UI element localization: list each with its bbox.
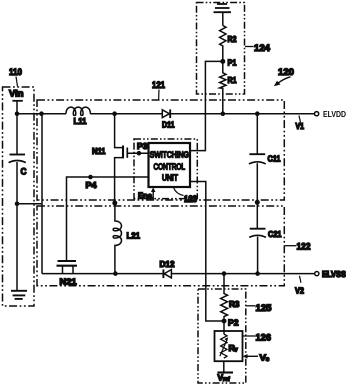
svg-text:R1: R1 — [228, 75, 237, 85]
inductor L21 — [113, 203, 140, 274]
svg-text:D12: D12 — [160, 259, 175, 269]
wire Vin node to main rail — [17, 113, 42, 115]
box 126 — [215, 331, 243, 361]
svg-text:C11: C11 — [268, 153, 281, 163]
wire P2 into box 126 — [223, 321, 225, 334]
node L21 tap on ELVSS rail — [113, 271, 118, 276]
label 125 with tick — [246, 303, 272, 314]
svg-text:Ena: Ena — [138, 191, 152, 201]
transistor N21 — [57, 261, 78, 286]
label 123 with leader — [174, 188, 198, 206]
variable resistor Rv — [220, 334, 239, 358]
box 123 dash-dot border — [134, 139, 197, 199]
node main rail left — [39, 111, 44, 116]
svg-text:v: v — [234, 347, 238, 353]
label V2 with leader — [295, 276, 304, 296]
Vs input arrow — [243, 352, 270, 363]
box 125 dash-dot border — [198, 289, 246, 383]
svg-text:ELVSS: ELVSS — [322, 269, 346, 279]
box 124 dash-dot border — [197, 3, 245, 95]
wire P4 line with gate drop to N21 — [67, 177, 149, 261]
node junction N11 source / L21 — [112, 201, 117, 206]
wire rail to L11 — [42, 113, 67, 115]
label 122 with tick — [285, 242, 311, 253]
Vin terminal — [9, 89, 24, 155]
capacitor C — [9, 155, 27, 178]
svg-text:P2: P2 — [228, 318, 239, 328]
ELVDD terminal circle — [315, 112, 319, 116]
svg-text:P3: P3 — [137, 141, 148, 151]
svg-text:ELVDD: ELVDD — [323, 109, 346, 119]
node P2 — [222, 318, 239, 328]
svg-text:N21: N21 — [60, 276, 77, 286]
svg-text:R3: R3 — [229, 299, 240, 309]
diode D12 — [160, 259, 175, 278]
node R1 tap on ELVDD rail — [221, 111, 226, 116]
svg-text:125: 125 — [256, 303, 273, 314]
wire left rail to node and ground — [16, 162, 18, 290]
switching control unit U (SCU box) — [149, 143, 191, 187]
svg-text:N11: N11 — [92, 146, 106, 156]
wire lower cross link — [17, 203, 42, 205]
svg-text:110: 110 — [9, 67, 22, 78]
wire L11 to D11 — [90, 113, 162, 115]
wire D12 to ELVSS terminal — [171, 273, 314, 275]
svg-text:C21: C21 — [268, 229, 282, 239]
resistor R2 — [220, 26, 237, 60]
node C11/C21 junction — [255, 200, 260, 205]
inductor L11 — [66, 107, 90, 126]
svg-text:CONTROL: CONTROL — [154, 163, 186, 172]
svg-text:V2: V2 — [295, 286, 304, 295]
svg-text:120: 120 — [278, 67, 294, 78]
box 122 dash-dot border — [37, 206, 284, 286]
wire feedback SCU to P2 — [190, 182, 224, 322]
wire D11 to ELVDD terminal — [170, 113, 314, 115]
ground (left, bottom of box 110) — [11, 291, 27, 299]
svg-text:L21: L21 — [127, 231, 141, 241]
label 121 with leader — [152, 80, 166, 99]
resistor R1 — [220, 61, 237, 113]
svg-text:123: 123 — [184, 194, 197, 205]
svg-text:C: C — [21, 167, 27, 178]
label 110 — [9, 67, 22, 87]
node P3 — [137, 141, 148, 156]
transistor N11 — [92, 114, 149, 203]
ground (top of box 124) — [214, 4, 232, 26]
svg-text:P1: P1 — [228, 58, 237, 68]
node C21 tap on ELVSS rail — [255, 271, 260, 276]
node on left rail at input — [15, 111, 20, 116]
box 121 dash-dot border — [37, 100, 284, 200]
svg-text:SWITCHING: SWITCHING — [150, 150, 189, 159]
label V1 with leader — [296, 116, 305, 132]
capacitor C21 — [249, 202, 282, 273]
svg-text:Vin: Vin — [9, 89, 24, 99]
label 124 with tick — [245, 43, 271, 54]
wire vertical branch down to ELVSS rail — [41, 114, 43, 274]
node R3 tap on ELVSS rail — [222, 271, 227, 276]
capacitor C11 — [249, 114, 281, 203]
ELVSS rail wire — [42, 273, 163, 275]
svg-text:V1: V1 — [296, 122, 305, 131]
Ena input arrow — [138, 187, 156, 200]
svg-text:D11: D11 — [162, 119, 175, 129]
svg-text:L11: L11 — [74, 116, 87, 126]
svg-text:UNIT: UNIT — [162, 174, 178, 183]
node P1 — [220, 58, 236, 68]
node P4 — [86, 175, 97, 190]
diode D11 — [162, 109, 175, 129]
svg-text:126: 126 — [256, 333, 272, 344]
node C11 tap on ELVDD rail — [255, 111, 260, 116]
resistor R3 — [221, 274, 240, 319]
svg-text:122: 122 — [297, 242, 311, 253]
wire feedback P1 to SCU — [190, 61, 223, 150]
svg-text:R2: R2 — [228, 34, 237, 44]
svg-text:P4: P4 — [86, 180, 97, 190]
svg-text:124: 124 — [254, 43, 271, 54]
node on left rail lower — [15, 202, 20, 207]
ELVSS terminal circle — [315, 272, 319, 276]
node N11 drain on rail — [112, 111, 117, 116]
svg-text:ref: ref — [223, 377, 231, 383]
box 110 dash-dot border — [3, 87, 35, 306]
svg-text:s: s — [266, 357, 270, 363]
label 120 with arrow — [274, 67, 294, 86]
label 126 with tick — [243, 333, 272, 344]
Vref terminal — [217, 361, 233, 383]
